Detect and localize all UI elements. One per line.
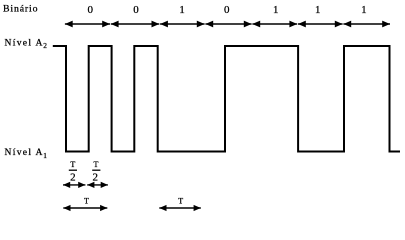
bit period arrow 1 [65,21,110,28]
T period arrow 2 [159,205,201,211]
T period arrow 1 [63,205,107,211]
bit label 1 (bit 7) [361,4,367,16]
svg-text:T: T [94,160,99,169]
svg-text:T: T [70,160,75,169]
svg-text:1: 1 [273,4,279,16]
svg-text:Nível A: Nível A [5,147,44,158]
bit period arrow 4 [205,21,251,28]
T/2 fraction 1 [69,160,77,184]
bit label 0 (bit 1) [87,4,93,16]
T/2 fraction 2 [92,160,100,184]
svg-text:2: 2 [43,41,47,50]
bit label 0 (bit 4) [224,4,230,16]
svg-text:0: 0 [224,4,230,16]
bit label 1 (bit 5) [273,4,279,16]
bit label 1 (bit 6) [315,4,321,16]
svg-text:2: 2 [92,172,98,184]
svg-text:0: 0 [133,4,139,16]
T/2 span arrow 1 [63,182,85,188]
svg-text:1: 1 [315,4,321,16]
svg-text:1: 1 [179,4,185,16]
svg-text:1: 1 [43,151,47,160]
label Binario [3,4,38,15]
label Nivel A1 [5,147,48,160]
bit period arrow 7 [343,21,390,28]
bit period arrow 3 [160,21,205,28]
svg-text:0: 0 [87,4,93,16]
label Nivel A2 [5,38,48,51]
svg-text:1: 1 [361,4,367,16]
svg-text:Binário: Binário [3,4,38,15]
svg-text:T: T [84,197,89,206]
svg-text:Nível A: Nível A [5,38,44,49]
bit period arrow 5 [252,21,297,28]
bit label 0 (bit 2) [133,4,139,16]
T period label 2 [178,197,183,206]
svg-text:T: T [178,197,183,206]
bit label 1 (bit 3) [179,4,185,16]
svg-text:2: 2 [70,172,76,184]
bit period arrow 2 [111,21,160,28]
CMI waveform [53,46,400,152]
bit period arrow 6 [298,21,343,28]
T/2 span arrow 2 [87,182,108,188]
T period label 1 [84,197,89,206]
